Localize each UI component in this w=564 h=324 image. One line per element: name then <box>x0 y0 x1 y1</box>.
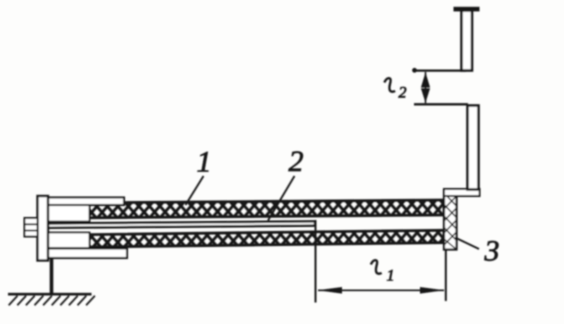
lower rod <box>468 106 479 190</box>
bracket bar on top of block 3 <box>444 189 480 196</box>
label l1 <box>371 260 395 284</box>
clamp upper spacer block <box>48 205 90 222</box>
dimension l1 right extension line <box>445 250 447 301</box>
upper rod <box>462 11 473 71</box>
clamp bottom jaw bar <box>47 249 127 259</box>
leader line for label 2 <box>268 176 295 221</box>
svg-text:1: 1 <box>387 268 395 285</box>
upper flange end dot <box>412 68 417 73</box>
svg-text:1: 1 <box>197 146 212 179</box>
support post <box>50 259 54 295</box>
lower flange line <box>414 103 468 105</box>
svg-text:2: 2 <box>399 85 407 102</box>
dimension l2 arrow <box>421 72 430 103</box>
beam 1 upper crosshatched strip <box>89 200 444 218</box>
dimension l1 arrow line <box>318 287 445 294</box>
ground line <box>8 293 92 296</box>
beam 1 lower crosshatched strip <box>89 230 444 247</box>
leader line for label 1 <box>186 176 204 205</box>
dimension l1 left extension line <box>315 220 317 303</box>
ground hatching <box>9 296 95 305</box>
svg-text:2: 2 <box>289 145 304 178</box>
upper flange line <box>413 69 466 71</box>
clamp bolt <box>25 218 38 237</box>
label l2 <box>384 78 406 101</box>
clamp vertical plate <box>38 196 49 261</box>
plate 2 (thin middle strip) <box>48 221 315 227</box>
end block 3 <box>444 190 457 250</box>
leader line for label 3 <box>455 238 479 250</box>
upper rod cap <box>454 7 480 12</box>
clamp lower spacer block <box>48 233 90 249</box>
svg-text:3: 3 <box>484 235 500 268</box>
clamp top jaw bar <box>47 198 124 206</box>
